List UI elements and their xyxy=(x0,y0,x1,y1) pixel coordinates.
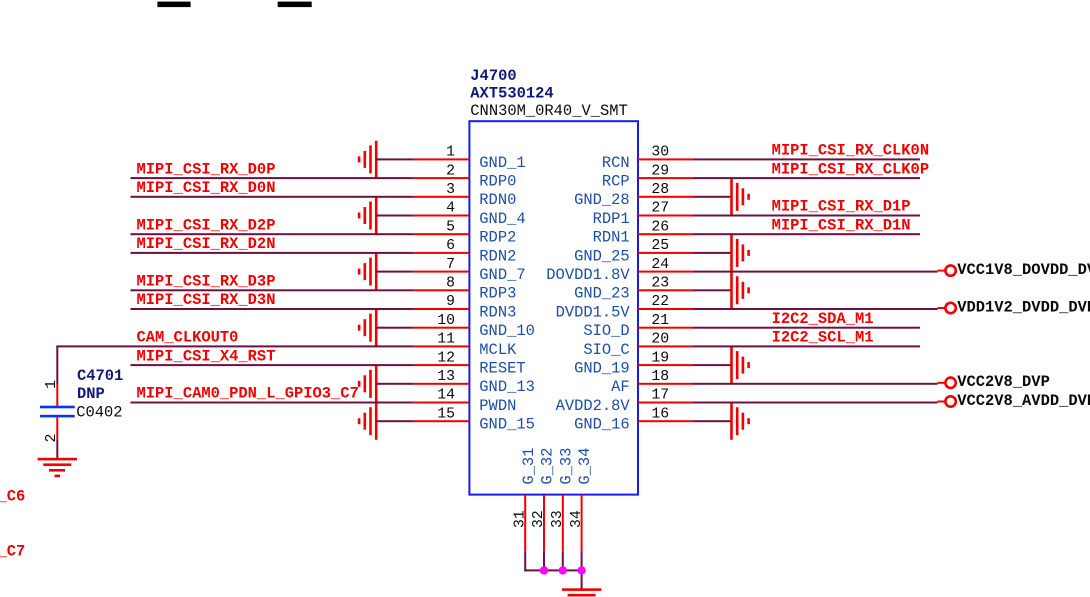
svg-text:DNP: DNP xyxy=(77,385,105,403)
text fragment (cropped title) top-left bar 1 xyxy=(157,2,190,8)
svg-text:I2C2_SDA_M1: I2C2_SDA_M1 xyxy=(772,310,874,328)
svg-text:21: 21 xyxy=(651,313,669,329)
svg-text:10: 10 xyxy=(437,313,455,329)
pin 33 (G_33) stub xyxy=(562,495,564,552)
svg-text:MIPI_CAM0_PDN_L_GPIO3_C7: MIPI_CAM0_PDN_L_GPIO3_C7 xyxy=(137,385,359,403)
wire pin 19 to ground xyxy=(694,364,732,366)
svg-text:MIPI_CSI_RX_D0N: MIPI_CSI_RX_D0N xyxy=(137,179,276,197)
wire net at pin 26 xyxy=(694,233,921,235)
pin 19 (GND_19) stub xyxy=(638,364,694,366)
svg-text:29: 29 xyxy=(651,163,669,179)
svg-text:MCLK: MCLK xyxy=(479,341,517,359)
power port VCC2V8_AVDD_DVP xyxy=(938,396,956,406)
wire net at pin 12 xyxy=(131,364,414,366)
power port VCC2V8_DVP xyxy=(938,378,956,388)
wire pin 18 to power port xyxy=(694,383,938,385)
svg-text:RESET: RESET xyxy=(479,360,525,378)
svg-text:17: 17 xyxy=(651,388,669,404)
wire pin 34 down to gnd bus xyxy=(581,552,583,572)
svg-text:VCC2V8_DVP: VCC2V8_DVP xyxy=(957,373,1050,391)
svg-text:5: 5 xyxy=(446,219,455,235)
svg-text:GND_10: GND_10 xyxy=(479,322,535,340)
wire pin 10 to ground xyxy=(376,327,413,329)
svg-text:27: 27 xyxy=(651,201,669,217)
wire gnd bus to ground xyxy=(581,570,583,588)
power port VDD1V2_DVDD_DVP xyxy=(938,303,956,313)
wire pin 13 to ground xyxy=(376,383,413,385)
pin 24 (DOVDD1.8V) stub xyxy=(638,271,694,273)
wire pin 16 to ground xyxy=(694,420,732,422)
pin 32 (G_32) stub xyxy=(543,495,545,552)
svg-text:MIPI_CSI_X4_RST: MIPI_CSI_X4_RST xyxy=(137,347,276,365)
svg-text:GND_28: GND_28 xyxy=(574,191,630,209)
pin 21 (SIO_D) stub xyxy=(638,327,694,329)
pin 9 (RDN3) stub xyxy=(413,308,469,310)
pin 3 (RDN0) stub xyxy=(413,196,469,198)
svg-text:RDN2: RDN2 xyxy=(479,247,516,265)
pin 26 (RDN1) stub xyxy=(638,233,694,235)
svg-text:C4701: C4701 xyxy=(77,367,123,385)
pin 6 (RDN2) stub xyxy=(413,252,469,254)
wire net at pin 20 xyxy=(694,345,921,347)
svg-text:AF: AF xyxy=(611,378,630,396)
wire pin 28 to ground xyxy=(694,196,732,198)
ground symbol at pin 13 xyxy=(358,365,378,402)
pin 12 (RESET) stub xyxy=(413,364,469,366)
ground symbol at pin 4 xyxy=(358,197,378,234)
pin 34 (G_34) stub xyxy=(581,495,583,552)
svg-text:I2C2_SCL_M1: I2C2_SCL_M1 xyxy=(772,329,874,347)
svg-text:8: 8 xyxy=(446,276,455,292)
svg-text:G_32: G_32 xyxy=(539,448,557,485)
pin 15 (GND_15) stub xyxy=(413,420,469,422)
svg-text:9: 9 xyxy=(446,294,455,310)
wire net at pin 9 xyxy=(131,308,414,310)
svg-text:GND_7: GND_7 xyxy=(479,266,525,284)
svg-text:C0402: C0402 xyxy=(76,404,122,422)
svg-text:RDP1: RDP1 xyxy=(593,210,630,228)
svg-text:VDD1V2_DVDD_DVP: VDD1V2_DVDD_DVP xyxy=(957,298,1090,316)
svg-text:22: 22 xyxy=(651,294,669,310)
wire pin 4 to ground xyxy=(376,215,413,217)
wire pin 1 to ground xyxy=(376,158,413,160)
svg-text:PWDN: PWDN xyxy=(479,397,516,415)
pin 14 (PWDN) stub xyxy=(413,402,469,404)
svg-text:SIO_C: SIO_C xyxy=(583,341,629,359)
svg-text:23: 23 xyxy=(651,276,669,292)
svg-text:AXT530124: AXT530124 xyxy=(470,85,553,103)
ground symbol at pin 25 xyxy=(730,234,750,271)
pin 18 (AF) stub xyxy=(638,383,694,385)
svg-text:25: 25 xyxy=(651,238,669,254)
ground symbol at pin 19 xyxy=(730,347,750,384)
svg-text:13: 13 xyxy=(437,369,455,385)
svg-text:MIPI_CSI_RX_D2P: MIPI_CSI_RX_D2P xyxy=(137,216,276,234)
svg-text:16: 16 xyxy=(651,406,669,422)
svg-text:RCP: RCP xyxy=(602,173,630,191)
pin 25 (GND_25) stub xyxy=(638,252,694,254)
svg-text:26: 26 xyxy=(651,219,669,235)
wire pin 17 to power port xyxy=(694,402,938,404)
ground symbol at pin 28 xyxy=(730,178,750,215)
svg-text:MIPI_CSI_RX_D1N: MIPI_CSI_RX_D1N xyxy=(772,216,911,234)
wire net at pin 6 xyxy=(131,252,414,254)
svg-text:MIPI_CSI_RX_D1P: MIPI_CSI_RX_D1P xyxy=(772,198,911,216)
wire net at pin 21 xyxy=(694,327,921,329)
svg-text:30: 30 xyxy=(651,145,669,161)
svg-text:6: 6 xyxy=(446,238,455,254)
svg-text:24: 24 xyxy=(651,257,669,273)
svg-text:33: 33 xyxy=(550,510,566,528)
svg-text:DVDD1.5V: DVDD1.5V xyxy=(556,303,631,321)
wire net at pin 3 xyxy=(131,196,414,198)
svg-text:1: 1 xyxy=(446,145,455,161)
wire CAM_CLKOUT0 horizontal (pin 11) xyxy=(56,345,413,347)
svg-text:15: 15 xyxy=(437,406,455,422)
ground symbol bottom xyxy=(562,588,601,596)
wire net at pin 2 xyxy=(131,177,414,179)
ground symbol at pin 16 xyxy=(730,403,750,440)
svg-text:CNN30M_0R40_V_SMT: CNN30M_0R40_V_SMT xyxy=(470,102,628,120)
svg-text:MIPI_CSI_RX_CLK0N: MIPI_CSI_RX_CLK0N xyxy=(772,142,930,160)
wire pin 24 to power port xyxy=(694,271,938,273)
svg-text:MIPI_CSI_RX_D0P: MIPI_CSI_RX_D0P xyxy=(137,160,276,178)
svg-text:14: 14 xyxy=(437,388,455,404)
svg-text:18: 18 xyxy=(651,369,669,385)
wire net at pin 5 xyxy=(131,233,414,235)
svg-text:SIO_D: SIO_D xyxy=(583,322,629,340)
svg-text:28: 28 xyxy=(651,182,669,198)
wire pin 7 to ground xyxy=(376,271,413,273)
svg-text:DOVDD1.8V: DOVDD1.8V xyxy=(546,266,630,284)
svg-text:1: 1 xyxy=(44,380,60,389)
svg-text:_C7: _C7 xyxy=(0,542,25,560)
svg-text:RDP2: RDP2 xyxy=(479,229,516,247)
wire pin 23 to ground xyxy=(694,289,732,291)
pin 22 (DVDD1.5V) stub xyxy=(638,308,694,310)
junction at pin 34 xyxy=(577,566,585,574)
svg-text:MIPI_CSI_RX_D3N: MIPI_CSI_RX_D3N xyxy=(137,291,276,309)
pin 17 (AVDD2.8V) stub xyxy=(638,402,694,404)
ground symbol below C4701 xyxy=(38,458,77,477)
wire C4701 pin2 to ground xyxy=(56,440,58,458)
pin 1 (GND_1) stub xyxy=(413,158,469,160)
pin 29 (RCP) stub xyxy=(638,177,694,179)
wire pin 33 down to gnd bus xyxy=(562,552,564,572)
pin 4 (GND_4) stub xyxy=(413,215,469,217)
svg-text:CAM_CLKOUT0: CAM_CLKOUT0 xyxy=(137,329,239,347)
svg-text:G_33: G_33 xyxy=(557,448,575,485)
pin 23 (GND_23) stub xyxy=(638,289,694,291)
svg-text:RDN0: RDN0 xyxy=(479,191,516,209)
junction at pin 32 xyxy=(540,566,548,574)
svg-text:RDN1: RDN1 xyxy=(593,229,630,247)
svg-text:GND_1: GND_1 xyxy=(479,154,525,172)
ground symbol at pin 7 xyxy=(358,253,378,290)
capacitor C4701 pin 1 (red) xyxy=(56,384,58,406)
wire net at pin 30 xyxy=(694,158,921,160)
ground symbol at pin 10 xyxy=(358,309,378,346)
svg-text:GND_19: GND_19 xyxy=(574,360,630,378)
svg-text:_C6: _C6 xyxy=(0,487,25,505)
svg-text:20: 20 xyxy=(651,332,669,348)
svg-text:31: 31 xyxy=(512,510,528,528)
wire net at pin 27 xyxy=(694,215,921,217)
svg-text:RDP3: RDP3 xyxy=(479,285,516,303)
pin 2 (RDP0) stub xyxy=(413,177,469,179)
svg-text:12: 12 xyxy=(437,350,455,366)
pin 20 (SIO_C) stub xyxy=(638,345,694,347)
pin 27 (RDP1) stub xyxy=(638,215,694,217)
svg-text:MIPI_CSI_RX_D3P: MIPI_CSI_RX_D3P xyxy=(137,273,276,291)
svg-text:4: 4 xyxy=(446,201,455,217)
power port VCC1V8_DOVDD_DVP xyxy=(938,265,956,275)
svg-text:AVDD2.8V: AVDD2.8V xyxy=(556,397,631,415)
text fragment (cropped title) top-left bar 2 xyxy=(278,2,312,8)
wire pin 32 down to gnd bus xyxy=(543,552,545,572)
svg-text:11: 11 xyxy=(437,332,455,348)
svg-text:19: 19 xyxy=(651,350,669,366)
svg-text:GND_25: GND_25 xyxy=(574,247,630,265)
svg-text:G_31: G_31 xyxy=(520,448,538,485)
wire pin 15 to ground xyxy=(376,420,413,422)
capacitor C4701 plates xyxy=(40,406,75,418)
pin 31 (G_31) stub xyxy=(524,495,526,552)
pin 10 (GND_10) stub xyxy=(413,327,469,329)
wire net at pin 29 xyxy=(694,177,921,179)
wire net at pin 8 xyxy=(131,289,414,291)
pin 5 (RDP2) stub xyxy=(413,233,469,235)
svg-text:32: 32 xyxy=(531,510,547,528)
svg-text:MIPI_CSI_RX_CLK0P: MIPI_CSI_RX_CLK0P xyxy=(772,160,930,178)
svg-text:GND_23: GND_23 xyxy=(574,285,630,303)
svg-text:7: 7 xyxy=(446,257,455,273)
svg-text:VCC2V8_AVDD_DVP: VCC2V8_AVDD_DVP xyxy=(957,392,1090,410)
pin 11 (MCLK) stub xyxy=(413,345,469,347)
gnd bus wire xyxy=(524,569,582,571)
pin 13 (GND_13) stub xyxy=(413,383,469,385)
wire net at pin 14 xyxy=(131,402,414,404)
ground symbol at pin 23 xyxy=(730,272,750,309)
wire CAM_CLKOUT0 vertical down to C4701 xyxy=(56,346,58,384)
connector J4700 body outline xyxy=(469,121,638,494)
svg-text:GND_15: GND_15 xyxy=(479,416,535,434)
pin 28 (GND_28) stub xyxy=(638,196,694,198)
svg-text:RDP0: RDP0 xyxy=(479,173,516,191)
svg-text:RDN3: RDN3 xyxy=(479,303,516,321)
svg-text:GND_16: GND_16 xyxy=(574,416,630,434)
svg-text:GND_4: GND_4 xyxy=(479,210,525,228)
junction at pin 33 xyxy=(559,566,567,574)
ground symbol at pin 1 xyxy=(358,141,378,178)
pin 8 (RDP3) stub xyxy=(413,289,469,291)
svg-text:2: 2 xyxy=(446,163,455,179)
wire pin 25 to ground xyxy=(694,252,732,254)
svg-text:RCN: RCN xyxy=(602,154,630,172)
capacitor C4701 pin 2 (red) xyxy=(56,417,58,440)
svg-text:34: 34 xyxy=(569,510,585,528)
pin 16 (GND_16) stub xyxy=(638,420,694,422)
svg-text:VCC1V8_DOVDD_DVP: VCC1V8_DOVDD_DVP xyxy=(957,261,1090,279)
svg-text:GND_13: GND_13 xyxy=(479,378,535,396)
wire pin 31 down to gnd bus xyxy=(524,552,526,572)
svg-text:MIPI_CSI_RX_D2N: MIPI_CSI_RX_D2N xyxy=(137,235,276,253)
wire pin 22 to power port xyxy=(694,308,938,310)
pin 7 (GND_7) stub xyxy=(413,271,469,273)
svg-text:3: 3 xyxy=(446,182,455,198)
svg-text:J4700: J4700 xyxy=(470,67,516,85)
ground symbol at pin 15 xyxy=(358,403,378,440)
svg-text:G_34: G_34 xyxy=(576,448,594,485)
pin 30 (RCN) stub xyxy=(638,158,694,160)
